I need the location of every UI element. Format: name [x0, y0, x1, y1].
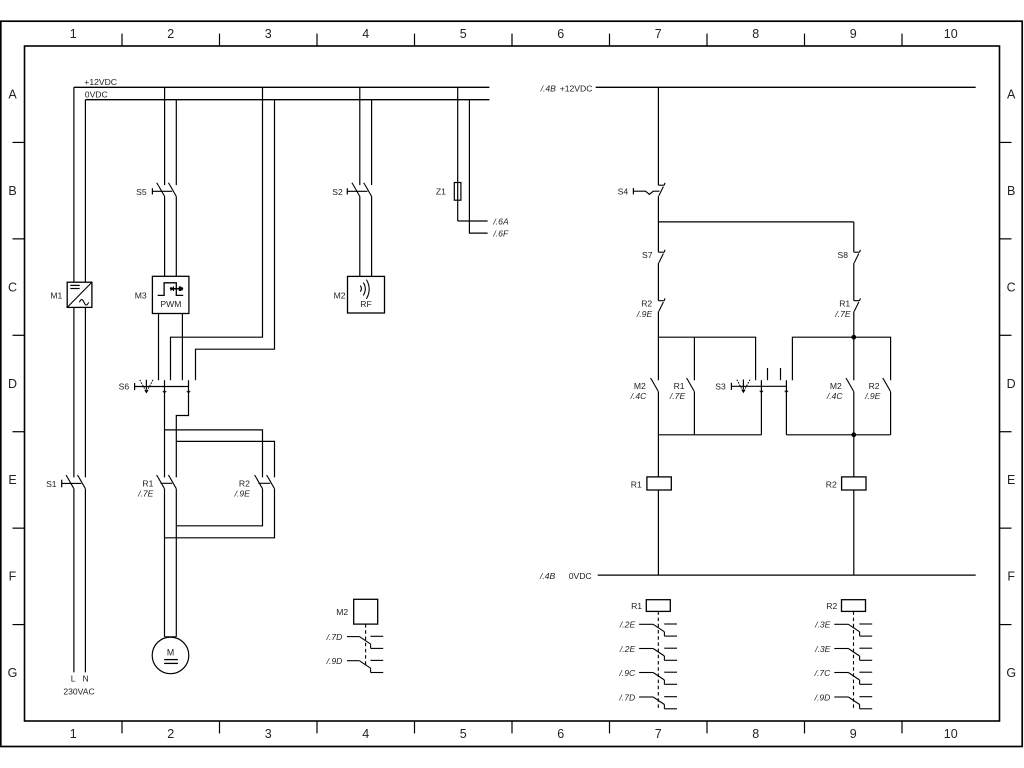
svg-text:10: 10 — [944, 727, 958, 741]
svg-text:1: 1 — [70, 727, 77, 741]
wire 0VDC to S6 fixed4 — [196, 100, 275, 381]
wire M2 contact to coil R2 — [853, 392, 855, 477]
svg-text:8: 8 — [752, 727, 759, 741]
svg-text:S6: S6 — [119, 382, 130, 392]
wire S1 pole1 to L — [73, 489, 75, 673]
mirror contact /.3E — [834, 624, 872, 636]
svg-text:/.9D: /.9D — [326, 656, 343, 666]
svg-text:M2: M2 — [830, 381, 842, 391]
wire M2 contact down — [657, 392, 659, 477]
wire R2 pole1 crossover — [176, 489, 262, 526]
wire 0VDC to M1 — [84, 100, 86, 283]
svg-text:2: 2 — [167, 727, 174, 741]
row ticks right — [1000, 141, 1012, 143]
svg-text:6: 6 — [557, 727, 564, 741]
svg-text:6: 6 — [557, 27, 564, 41]
svg-text:D: D — [1007, 377, 1016, 391]
wire S1 pole2 to N — [84, 489, 86, 673]
mirror contact /.9D — [834, 697, 872, 709]
svg-text:M: M — [167, 648, 174, 658]
svg-text:E: E — [1007, 473, 1015, 487]
svg-text:/.9D: /.9D — [814, 692, 831, 702]
wire S2 to M2 pin1 — [359, 196, 361, 276]
wire R1 coil to 0VDC — [657, 490, 659, 575]
svg-text:R1: R1 — [839, 298, 850, 308]
svg-text:D: D — [8, 377, 17, 391]
switch S2 — [347, 183, 371, 197]
svg-text:/.3E: /.3E — [814, 620, 831, 630]
svg-text:Z1: Z1 — [436, 187, 446, 197]
switch S4 — [633, 183, 665, 196]
mirror contact /.9D — [347, 660, 383, 672]
svg-text:5: 5 — [460, 27, 467, 41]
wire M3 out1 to S6 — [158, 314, 160, 381]
svg-text:/.7D: /.7D — [618, 692, 635, 702]
wire M1 to S1 pole2 — [84, 307, 86, 477]
svg-text:/.6F: /.6F — [492, 229, 509, 239]
selector switch S6 — [135, 380, 191, 394]
wire R2 pole2 crossover — [165, 489, 275, 538]
contact R2 /.9E (right) — [884, 380, 891, 391]
column ticks bottom — [121, 721, 123, 733]
svg-text:S5: S5 — [136, 187, 147, 197]
svg-text:M2: M2 — [336, 607, 348, 617]
svg-text:A: A — [8, 88, 17, 102]
svg-text:1: 1 — [70, 27, 77, 41]
wire R1 pole2 to motor — [175, 489, 177, 637]
svg-text:S1: S1 — [46, 479, 57, 489]
svg-text:M3: M3 — [135, 290, 147, 300]
wire S2 to M2 pin2 — [371, 196, 373, 276]
svg-text:4: 4 — [362, 727, 369, 741]
contact M2 /.4C (left) — [652, 380, 659, 391]
svg-text:R1: R1 — [631, 480, 642, 490]
wire branch to R2 pole2 — [176, 441, 274, 477]
wire +12VDC to S6 fixed2 — [171, 87, 263, 380]
wire S5 to M3 pin2 — [175, 196, 177, 276]
fuse Z1 — [454, 183, 461, 201]
svg-text:S3: S3 — [715, 382, 726, 392]
wire R2 coil to 0VDC — [853, 490, 855, 575]
wire M1 to S1 pole1 — [73, 307, 75, 477]
svg-text:+12VDC: +12VDC — [84, 77, 117, 87]
junction bottom — [851, 432, 856, 437]
svg-text:/.9C: /.9C — [618, 668, 636, 678]
wire Z1 to /.6A — [458, 220, 488, 222]
svg-text:3: 3 — [265, 727, 272, 741]
wire R1 parallel branch — [693, 337, 695, 380]
svg-text:0VDC: 0VDC — [85, 90, 108, 100]
wire R1 contact down — [693, 392, 695, 435]
svg-text:F: F — [9, 570, 17, 584]
relay contact R2 (left) — [255, 475, 275, 489]
svg-text:C: C — [8, 280, 17, 294]
svg-text:R1: R1 — [142, 479, 153, 489]
svg-text:8: 8 — [752, 27, 759, 41]
relay coil R1 — [647, 477, 671, 490]
svg-text:RF: RF — [360, 299, 371, 309]
svg-text:R2: R2 — [826, 480, 837, 490]
svg-text:+12VDC: +12VDC — [560, 83, 593, 93]
mirror contact /.3E — [834, 648, 872, 660]
net +12VDC bus (right) — [596, 86, 976, 88]
svg-text:G: G — [8, 666, 18, 680]
svg-text:5: 5 — [460, 727, 467, 741]
switch S5 — [152, 183, 176, 197]
switch contact S8 — [854, 251, 860, 253]
coil mirror R2 — [842, 600, 866, 708]
relay contact R2 /.9E — [658, 300, 664, 302]
mirror contact /.7D — [347, 636, 383, 648]
svg-text:PWM: PWM — [160, 299, 181, 309]
svg-text:B: B — [8, 184, 16, 198]
svg-text:4: 4 — [362, 27, 369, 41]
svg-text:N: N — [82, 674, 88, 684]
wire +12VDC to Z1 — [457, 87, 459, 221]
svg-text:C: C — [1007, 280, 1016, 294]
svg-text:L: L — [71, 674, 76, 684]
svg-text:7: 7 — [655, 27, 662, 41]
wire R1 pole1 to motor — [164, 489, 166, 637]
relay contact R1 /.7E — [854, 300, 860, 302]
wire S8 to R1 — [853, 263, 855, 301]
svg-text:/.6A: /.6A — [492, 217, 509, 227]
relay coil R2 — [842, 477, 866, 490]
svg-text:9: 9 — [850, 27, 857, 41]
wire left group top — [658, 337, 755, 380]
wire node to S8 branch — [658, 221, 853, 223]
wire S7 to R2 — [657, 263, 659, 301]
svg-text:0VDC: 0VDC — [569, 571, 592, 581]
svg-text:/.7E: /.7E — [669, 391, 686, 401]
svg-text:230VAC: 230VAC — [63, 686, 94, 696]
svg-text:R2: R2 — [826, 601, 837, 611]
svg-text:7: 7 — [655, 727, 662, 741]
module M2 RF receiver — [348, 276, 385, 313]
wire M3 out2 to S6 — [181, 314, 183, 381]
svg-text:2: 2 — [167, 27, 174, 41]
svg-text:S7: S7 — [642, 250, 653, 260]
wire +12VDC to S5 — [164, 87, 166, 185]
svg-text:/.2E: /.2E — [619, 620, 636, 630]
svg-text:/.4B: /.4B — [540, 83, 557, 93]
svg-text:B: B — [1007, 184, 1015, 198]
mirror contact /.9C — [639, 672, 677, 684]
motor M — [152, 637, 189, 674]
junction top — [851, 335, 856, 340]
svg-text:R1: R1 — [631, 601, 642, 611]
svg-text:9: 9 — [850, 727, 857, 741]
wire R2 contact down — [890, 392, 892, 435]
wire +12VDC to S2 — [359, 87, 361, 185]
mirror contact /.2E — [639, 648, 677, 660]
svg-text:F: F — [1007, 570, 1015, 584]
contact R1 /.7E (mid) — [688, 380, 695, 391]
wire branch to R2 pole1 — [165, 430, 263, 478]
net 0VDC bus (left) — [85, 99, 489, 101]
svg-text:/.4C: /.4C — [826, 391, 844, 401]
wire bus to S4 — [657, 87, 659, 185]
svg-text:/.7D: /.7D — [326, 632, 343, 642]
svg-text:E: E — [8, 473, 16, 487]
power supply M1 — [67, 282, 92, 307]
svg-text:/.3E: /.3E — [814, 644, 831, 654]
wire right group top — [792, 337, 890, 380]
svg-text:/.9E: /.9E — [636, 309, 653, 319]
switch contact S7 — [658, 251, 664, 253]
module M3 PWM — [152, 276, 189, 313]
svg-text:3: 3 — [265, 27, 272, 41]
svg-text:S4: S4 — [618, 187, 629, 197]
row ticks left — [13, 141, 25, 143]
wire 0VDC to /.6F — [469, 100, 487, 233]
wire 0VDC to S5 — [175, 100, 177, 185]
svg-text:M2: M2 — [634, 381, 646, 391]
wire R2 to M2 contact — [657, 311, 659, 380]
svg-text:/.7C: /.7C — [814, 668, 832, 678]
wire right group bottom — [786, 434, 890, 436]
svg-text:R2: R2 — [869, 381, 880, 391]
svg-text:/.9E: /.9E — [234, 488, 251, 498]
svg-text:/.9E: /.9E — [864, 391, 881, 401]
svg-text:/.4C: /.4C — [630, 391, 648, 401]
svg-text:S2: S2 — [332, 187, 343, 197]
wire left group bottom — [658, 434, 761, 436]
svg-text:R2: R2 — [641, 298, 652, 308]
wire R1 to junction — [853, 311, 855, 380]
net 0VDC bus (right) — [598, 574, 976, 576]
mirror contact /.7D — [639, 697, 677, 709]
wire S5 to M3 pin1 — [164, 196, 166, 276]
svg-text:/.2E: /.2E — [619, 644, 636, 654]
svg-text:/.7E: /.7E — [834, 309, 851, 319]
svg-text:/.7E: /.7E — [137, 488, 154, 498]
svg-text:10: 10 — [944, 27, 958, 41]
svg-text:M1: M1 — [50, 290, 62, 300]
switch S1 — [62, 475, 86, 489]
contact M2 /.4C (right) — [847, 380, 854, 391]
wire +12VDC to M1 — [73, 87, 75, 282]
svg-text:R2: R2 — [239, 479, 250, 489]
coil mirror R1 — [646, 600, 670, 708]
wire S6 pole1 down — [164, 380, 166, 477]
svg-text:/.4B: /.4B — [539, 571, 556, 581]
mirror contact /.2E — [639, 624, 677, 636]
column ticks top — [121, 34, 123, 46]
relay contact R1 (left) — [157, 475, 177, 489]
svg-text:A: A — [1007, 88, 1016, 102]
net +12VDC bus (left) — [74, 86, 490, 88]
wire S6 pole2 down — [176, 380, 188, 477]
wire S4 to node — [657, 196, 659, 252]
contact mirror M2 — [354, 599, 378, 667]
svg-text:S8: S8 — [837, 250, 848, 260]
svg-text:G: G — [1006, 666, 1016, 680]
mirror contact /.7C — [834, 672, 872, 684]
wire 0VDC to S2 — [371, 100, 373, 185]
svg-text:R1: R1 — [674, 381, 685, 391]
svg-text:M2: M2 — [334, 290, 346, 300]
selector switch S3 — [731, 368, 788, 435]
